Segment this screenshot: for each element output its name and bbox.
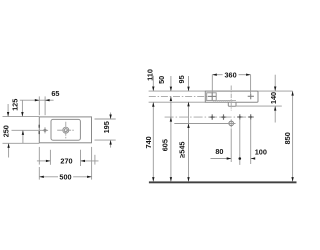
basin body outline <box>205 91 258 102</box>
dim 500 ext bar right <box>91 147 93 180</box>
arrow 195 down <box>109 115 111 120</box>
arrow 95 down <box>187 87 189 92</box>
arrow 360 left <box>212 74 217 76</box>
dim 270 line right <box>81 160 99 162</box>
svg-text:250: 250 <box>2 125 11 137</box>
dim 195 ref line top <box>95 118 116 120</box>
arrow 545 down <box>187 177 189 182</box>
dim 110 upper arrow line <box>152 76 154 91</box>
svg-text:195: 195 <box>102 121 111 133</box>
tap platform inner box <box>207 93 217 101</box>
dim 740 line <box>152 102 154 181</box>
deck centerline dash-dot <box>149 95 208 97</box>
svg-text:270: 270 <box>60 156 72 165</box>
tap hole circle <box>44 129 46 131</box>
top edge reference line <box>149 90 293 92</box>
bottom edge extension <box>3 142 40 144</box>
arrow 65 left <box>35 99 40 101</box>
arrow 125 down <box>21 112 23 117</box>
dim 360 line right <box>239 74 251 76</box>
wall centerline dash-dot <box>165 116 254 118</box>
tap hole cross left deck <box>208 93 216 101</box>
dim 270 ext bar d <box>94 155 96 165</box>
arrow 270 right <box>81 160 86 162</box>
dim 360 line left <box>212 74 222 76</box>
siphon circle <box>229 121 234 126</box>
arrow 545 up <box>187 124 189 129</box>
hatch strip <box>213 101 233 103</box>
dim 270 line left <box>37 160 51 162</box>
arrow 605 up <box>170 117 172 122</box>
dim 500 ext bar left <box>38 167 40 180</box>
svg-text:95: 95 <box>177 75 186 83</box>
svg-text:140: 140 <box>269 92 278 104</box>
dim 250 upper arrow line <box>7 104 9 116</box>
arrow 110 down <box>152 87 154 92</box>
dim 65 ext bar right <box>44 96 46 115</box>
arrow 850 down <box>291 177 293 182</box>
drain circle outer <box>63 127 69 133</box>
arrow 360 right <box>246 74 251 76</box>
svg-text:605: 605 <box>160 139 169 151</box>
basin inner bottom line <box>205 99 236 101</box>
svg-text:80: 80 <box>215 147 223 156</box>
fixing cross 2 <box>221 114 227 120</box>
drain centerline horizontal <box>57 129 74 131</box>
tap hole cross right deck <box>248 94 254 100</box>
svg-text:100: 100 <box>255 148 267 157</box>
dim 500 line left <box>39 176 58 178</box>
drain column <box>230 128 232 162</box>
dim 50 upper arrow line <box>170 76 172 91</box>
wall fixing tick lower <box>39 131 40 134</box>
arrow 270 left <box>46 160 51 162</box>
svg-text:50: 50 <box>157 76 166 84</box>
arrow 65 right <box>45 99 50 101</box>
dim 545 line <box>188 102 190 182</box>
dim 195 upper arrow line <box>110 113 112 120</box>
arrow 850 up <box>291 91 293 96</box>
tap center extension <box>12 129 42 131</box>
dim 125 upper arrow line <box>21 100 23 116</box>
dim 95 upper arrow line <box>188 76 190 91</box>
arrow 95 up <box>187 102 189 107</box>
dim 65 ext bar left <box>38 96 40 115</box>
arrow 740 up <box>152 102 154 107</box>
arrow 140 down <box>274 87 276 92</box>
min height reference line <box>174 123 235 125</box>
svg-text:125: 125 <box>11 99 20 111</box>
dot 80-100 <box>239 157 242 160</box>
drain bottom reference line <box>236 105 282 107</box>
dim 605 line <box>170 97 172 182</box>
dim 80-100 line right tail <box>251 158 255 160</box>
drain centerline vertical <box>65 122 67 139</box>
arrow 195 up <box>109 140 111 145</box>
dim 500 line right <box>73 176 91 178</box>
fixing cross 3 <box>237 114 243 120</box>
cross3 column <box>239 120 241 165</box>
arrow 500 left <box>39 176 44 178</box>
svg-text:500: 500 <box>59 172 71 181</box>
arrow 80 right <box>227 157 232 159</box>
dim 270 ext bar b <box>49 150 51 165</box>
dim 850 line <box>292 91 294 182</box>
drain outlet box <box>228 102 236 106</box>
svg-text:110: 110 <box>146 69 155 81</box>
plan inner basin <box>51 119 80 140</box>
dim 250 lower arrow line <box>8 143 10 157</box>
cross4 column <box>250 120 252 164</box>
arrow 740 down <box>152 177 154 182</box>
dim 360 ext right <box>250 75 252 94</box>
dim 195 ref line bottom <box>95 139 116 141</box>
dim 195 lower arrow line <box>110 140 112 148</box>
wall fixing tick upper <box>39 125 40 128</box>
dim 125 lower arrow line <box>22 131 24 144</box>
dim 140 lower arrow line <box>274 106 276 122</box>
tap hole cross vertical <box>44 127 46 133</box>
plan outer rim <box>39 117 91 143</box>
siphon cross vertical <box>230 119 232 127</box>
dim 80-100 line left tail <box>211 158 232 160</box>
svg-text:850: 850 <box>283 132 292 144</box>
svg-text:740: 740 <box>144 136 153 148</box>
bottom edge reference line <box>149 101 206 103</box>
fixing cross 4 <box>248 114 254 120</box>
svg-text:65: 65 <box>51 89 59 98</box>
arrow 125 up <box>22 130 24 135</box>
arrow 100 left <box>251 157 256 159</box>
drain centerline vertical dash-dot <box>230 86 232 111</box>
drain circle inner <box>64 129 67 132</box>
arrow 500 right <box>87 176 92 178</box>
svg-text:360: 360 <box>225 71 237 80</box>
dim 360 ext left <box>211 75 213 93</box>
ground line <box>149 181 297 183</box>
arrow 605 down <box>170 177 172 182</box>
arrow 250 up <box>7 143 9 148</box>
arrow 250 down <box>7 112 9 117</box>
dim 270 ext bar c <box>80 150 82 166</box>
tap hole cross horizontal <box>42 129 48 131</box>
arrow 140 up <box>274 106 276 111</box>
arrow 50 down <box>170 87 172 92</box>
dim 270 ext bar a <box>38 147 40 165</box>
dim 140 upper arrow line <box>274 75 276 91</box>
svg-text:≥545: ≥545 <box>177 142 186 158</box>
dim 65 line <box>20 99 54 101</box>
arrow 50 up <box>170 97 172 102</box>
top edge extension <box>3 116 40 118</box>
fixing cross 1 <box>209 114 215 120</box>
